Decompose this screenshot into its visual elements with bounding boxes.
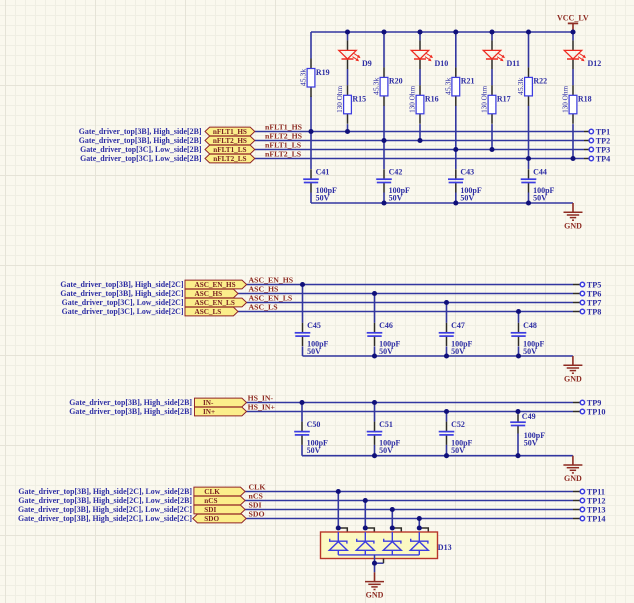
port nFLT1_LS bbox=[205, 145, 255, 154]
capacitor C51 100pF 50V bbox=[367, 420, 401, 455]
resistor R15 value 130 Ohm bbox=[336, 85, 366, 124]
svg-text:50V: 50V bbox=[451, 446, 465, 455]
wire D13 common anode rail bbox=[338, 554, 419, 556]
wire D13 pin 2 bbox=[365, 501, 374, 533]
wire capacitor column section2 bbox=[446, 303, 448, 357]
svg-text:Gate_driver_top[3B], High_side: Gate_driver_top[3B], High_side[2C] bbox=[60, 289, 184, 298]
svg-text:IN-: IN- bbox=[203, 399, 214, 407]
port ASC_HS bbox=[185, 289, 238, 298]
svg-text:SDO: SDO bbox=[249, 510, 265, 519]
svg-text:TP7: TP7 bbox=[587, 298, 602, 307]
svg-text:C48: C48 bbox=[523, 321, 537, 330]
svg-text:TP8: TP8 bbox=[587, 307, 602, 316]
svg-text:R15: R15 bbox=[352, 95, 366, 104]
net label HS_IN+ bbox=[248, 403, 276, 412]
resistor R19 value 45.3k bbox=[299, 59, 330, 98]
capacitor C47 100pF 50V bbox=[439, 321, 473, 356]
label Gate_driver_top[3B], High_side[2C] bbox=[60, 289, 184, 298]
wire D10 column bbox=[419, 32, 421, 141]
svg-text:Gate_driver_top[3B], High_side: Gate_driver_top[3B], High_side[2C], Low_… bbox=[18, 514, 192, 523]
test point TP10 bbox=[573, 407, 605, 416]
wire net ASC_EN_HS bbox=[247, 284, 573, 286]
net label HS_IN- bbox=[248, 394, 274, 403]
svg-text:Gate_driver_top[3B], High_side: Gate_driver_top[3B], High_side[2B] bbox=[79, 136, 202, 145]
svg-text:C44: C44 bbox=[533, 167, 547, 176]
svg-text:GND: GND bbox=[366, 591, 384, 600]
wire D13 ground tap bbox=[375, 555, 384, 572]
wire net SDO bbox=[246, 518, 573, 520]
svg-text:ASC_HS: ASC_HS bbox=[249, 285, 279, 294]
port nCS bbox=[194, 496, 245, 505]
svg-text:TP12: TP12 bbox=[587, 496, 606, 505]
svg-text:HS_IN-: HS_IN- bbox=[248, 394, 274, 403]
svg-text:nFLT2_LS: nFLT2_LS bbox=[265, 150, 301, 159]
wire ground rail section2 bbox=[303, 355, 573, 357]
svg-text:GND: GND bbox=[564, 474, 582, 483]
wire net nCS bbox=[245, 500, 573, 502]
LED D9 bbox=[339, 40, 372, 69]
port SDI bbox=[194, 505, 245, 514]
svg-text:ASC_LS: ASC_LS bbox=[249, 303, 278, 312]
svg-text:C47: C47 bbox=[451, 321, 465, 330]
svg-text:Gate_driver_top[3B], High_side: Gate_driver_top[3B], High_side[2C] bbox=[60, 280, 184, 289]
svg-text:nFLT1_LS: nFLT1_LS bbox=[213, 146, 246, 154]
svg-text:TP5: TP5 bbox=[587, 280, 602, 289]
net label CLK bbox=[249, 483, 266, 492]
svg-text:ASC_EN_LS: ASC_EN_LS bbox=[195, 299, 235, 307]
junction dots section2 bbox=[300, 282, 521, 359]
svg-text:nFLT2_LS: nFLT2_LS bbox=[213, 155, 246, 163]
test point TP6 bbox=[573, 289, 601, 298]
wire ground rail section3 bbox=[302, 455, 573, 457]
resistor R17 value 130 Ohm bbox=[481, 85, 511, 124]
svg-text:Gate_driver_top[3B], High_side: Gate_driver_top[3B], High_side[2C], Low_… bbox=[18, 496, 192, 505]
zener diode D13 element 2 bbox=[356, 532, 374, 555]
test point TP11 bbox=[573, 487, 605, 496]
svg-text:TP9: TP9 bbox=[587, 398, 602, 407]
svg-text:50V: 50V bbox=[316, 193, 330, 202]
net label ASC_EN_LS bbox=[249, 294, 293, 303]
svg-text:45.3k: 45.3k bbox=[444, 78, 453, 95]
svg-text:Gate_driver_top[3B], High_side: Gate_driver_top[3B], High_side[2C], Low_… bbox=[18, 487, 192, 496]
junction dots ground rail section1 bbox=[381, 200, 531, 205]
port nFLT1_HS bbox=[205, 127, 255, 136]
svg-text:ASC_EN_HS: ASC_EN_HS bbox=[195, 281, 236, 289]
test point TP7 bbox=[573, 298, 601, 307]
label Gate_driver_top[3B], High_side[2C], Low_side[2B] bbox=[18, 496, 192, 505]
junction dots bus section1 bbox=[308, 129, 575, 161]
svg-text:50V: 50V bbox=[379, 347, 393, 356]
wire D11 column bbox=[491, 32, 493, 150]
wire net HS_IN+ bbox=[247, 411, 574, 413]
label Gate_driver_top[3B], High_side[2B] bbox=[69, 398, 192, 407]
svg-text:C43: C43 bbox=[460, 167, 474, 176]
svg-text:C46: C46 bbox=[379, 321, 393, 330]
svg-text:50V: 50V bbox=[524, 438, 538, 447]
svg-text:nFLT2_HS: nFLT2_HS bbox=[213, 137, 247, 145]
svg-text:R17: R17 bbox=[497, 95, 511, 104]
test point TP13 bbox=[573, 505, 605, 514]
wire capacitor column section3 bbox=[446, 412, 448, 456]
port IN+ bbox=[195, 407, 247, 416]
svg-text:C49: C49 bbox=[522, 412, 536, 421]
net label nFLT1_HS bbox=[265, 123, 302, 132]
svg-text:TP14: TP14 bbox=[587, 514, 606, 523]
svg-text:Gate_driver_top[3C], Low_side[: Gate_driver_top[3C], Low_side[2B] bbox=[80, 154, 202, 163]
svg-text:ASC_LS: ASC_LS bbox=[195, 308, 222, 316]
test point TP1 bbox=[584, 127, 610, 136]
svg-text:CLK: CLK bbox=[204, 488, 220, 496]
label Gate_driver_top[3B], High_side[2C], Low_side[2C] bbox=[18, 505, 192, 514]
capacitor C44 100pF 50V bbox=[521, 167, 555, 202]
port IN- bbox=[195, 398, 247, 407]
label Gate_driver_top[3C], Low_side[2B] bbox=[80, 145, 202, 154]
svg-text:C41: C41 bbox=[316, 167, 330, 176]
svg-text:TP13: TP13 bbox=[587, 505, 606, 514]
wire D12 column bbox=[572, 32, 574, 159]
svg-text:Gate_driver_top[3B], High_side: Gate_driver_top[3B], High_side[2C], Low_… bbox=[18, 505, 192, 514]
port nFLT2_HS bbox=[205, 136, 255, 145]
net label nFLT1_LS bbox=[265, 141, 301, 150]
svg-text:TP1: TP1 bbox=[596, 127, 611, 136]
ground GND D13 bbox=[365, 572, 384, 599]
svg-text:Gate_driver_top[3C], Low_side[: Gate_driver_top[3C], Low_side[2C] bbox=[62, 307, 184, 316]
net label nCS bbox=[249, 492, 263, 501]
zener diode D13 element 3 bbox=[383, 532, 401, 555]
wire R20 column bbox=[383, 32, 385, 203]
label Gate_driver_top[3B], High_side[2C], Low_side[2B] bbox=[18, 487, 192, 496]
test point TP3 bbox=[584, 145, 610, 154]
svg-text:45.3k: 45.3k bbox=[299, 69, 308, 86]
wire capacitor column section2 bbox=[302, 285, 304, 357]
label Gate_driver_top[3C], Low_side[2C] bbox=[62, 307, 184, 316]
svg-text:TP6: TP6 bbox=[587, 289, 602, 298]
svg-text:TP10: TP10 bbox=[587, 407, 606, 416]
svg-text:ASC_HS: ASC_HS bbox=[195, 290, 223, 298]
svg-text:HS_IN+: HS_IN+ bbox=[248, 403, 276, 412]
resistor R22 value 45.3k bbox=[516, 67, 547, 106]
svg-text:50V: 50V bbox=[523, 347, 537, 356]
test point TP14 bbox=[573, 514, 605, 523]
svg-text:TP11: TP11 bbox=[587, 487, 605, 496]
wire capacitor column section2 bbox=[518, 312, 520, 357]
wire D9 column bbox=[347, 32, 349, 132]
junction dots section4 bbox=[336, 489, 422, 566]
LED D12 bbox=[564, 40, 601, 69]
capacitor C42 100pF 50V bbox=[376, 167, 410, 202]
svg-text:50V: 50V bbox=[460, 193, 474, 202]
test point TP12 bbox=[573, 496, 605, 505]
net label SDO bbox=[249, 510, 265, 519]
port ASC_EN_LS bbox=[185, 298, 247, 307]
wire net nFLT2_LS bbox=[255, 158, 584, 160]
wire net ASC_LS bbox=[238, 311, 573, 313]
test point TP4 bbox=[584, 154, 610, 163]
svg-text:nFLT1_LS: nFLT1_LS bbox=[265, 141, 301, 150]
svg-text:D10: D10 bbox=[435, 59, 449, 68]
svg-text:130 Ohm: 130 Ohm bbox=[562, 86, 570, 113]
svg-text:C50: C50 bbox=[307, 420, 321, 429]
ground GND section3 bbox=[563, 456, 582, 483]
capacitor C45 100pF 50V bbox=[295, 321, 329, 356]
svg-text:nCS: nCS bbox=[249, 492, 263, 501]
svg-text:VCC_LV: VCC_LV bbox=[557, 13, 589, 22]
resistor R21 value 45.3k bbox=[444, 67, 475, 106]
port CLK bbox=[194, 487, 245, 496]
svg-text:ASC_EN_LS: ASC_EN_LS bbox=[249, 294, 293, 303]
svg-text:SDO: SDO bbox=[204, 515, 219, 523]
svg-text:Gate_driver_top[3C], Low_side[: Gate_driver_top[3C], Low_side[2C] bbox=[62, 298, 184, 307]
svg-text:nCS: nCS bbox=[204, 497, 217, 505]
test point TP2 bbox=[584, 136, 610, 145]
capacitor C50 100pF 50V bbox=[294, 420, 328, 455]
svg-text:C51: C51 bbox=[379, 420, 393, 429]
svg-text:D12: D12 bbox=[588, 59, 602, 68]
label Gate_driver_top[3B], High_side[2B] bbox=[69, 407, 192, 416]
label Gate_driver_top[3C], Low_side[2B] bbox=[80, 154, 202, 163]
svg-text:C45: C45 bbox=[307, 321, 321, 330]
svg-text:nFLT2_HS: nFLT2_HS bbox=[265, 132, 302, 141]
LED D11 bbox=[483, 40, 520, 69]
label Gate_driver_top[3B], High_side[2B] bbox=[79, 136, 202, 145]
wire R19 column bbox=[310, 32, 312, 203]
svg-text:Gate_driver_top[3B], High_side: Gate_driver_top[3B], High_side[2B] bbox=[69, 398, 192, 407]
net label nFLT2_LS bbox=[265, 150, 301, 159]
LED D10 bbox=[411, 40, 448, 69]
wire net SDI bbox=[245, 509, 573, 511]
svg-text:130 Ohm: 130 Ohm bbox=[409, 86, 417, 113]
wire net nFLT1_LS bbox=[255, 149, 584, 151]
svg-text:CLK: CLK bbox=[249, 483, 266, 492]
svg-text:SDI: SDI bbox=[204, 506, 216, 514]
capacitor C43 100pF 50V bbox=[448, 167, 482, 202]
svg-text:130 Ohm: 130 Ohm bbox=[336, 86, 344, 113]
svg-text:R20: R20 bbox=[389, 77, 403, 86]
net label ASC_EN_HS bbox=[249, 276, 294, 285]
wire R22 column bbox=[528, 32, 530, 203]
port ASC_EN_HS bbox=[185, 280, 247, 289]
svg-text:D11: D11 bbox=[507, 59, 520, 68]
svg-text:130 Ohm: 130 Ohm bbox=[481, 86, 489, 113]
test point TP8 bbox=[573, 307, 601, 316]
svg-text:50V: 50V bbox=[379, 446, 393, 455]
wire top power rail bbox=[311, 31, 573, 33]
net label ASC_LS bbox=[249, 303, 278, 312]
wire net ASC_EN_LS bbox=[247, 302, 573, 304]
svg-text:C52: C52 bbox=[451, 420, 465, 429]
label Gate_driver_top[3B], High_side[2B] bbox=[79, 127, 202, 136]
svg-text:50V: 50V bbox=[533, 193, 547, 202]
wire net HS_IN- bbox=[247, 402, 574, 404]
resistor R16 value 130 Ohm bbox=[409, 85, 439, 124]
svg-text:R19: R19 bbox=[316, 68, 330, 77]
svg-text:SDI: SDI bbox=[249, 501, 262, 510]
svg-text:50V: 50V bbox=[451, 347, 465, 356]
port SDO bbox=[193, 514, 246, 523]
test point TP5 bbox=[573, 280, 601, 289]
wire net CLK bbox=[245, 491, 573, 493]
junction dots top rail bbox=[345, 29, 576, 34]
svg-text:Gate_driver_top[3B], High_side: Gate_driver_top[3B], High_side[2B] bbox=[69, 407, 192, 416]
svg-text:50V: 50V bbox=[307, 446, 321, 455]
power symbol VCC_LV bbox=[557, 13, 589, 32]
svg-text:R22: R22 bbox=[533, 77, 547, 86]
ground GND section2 bbox=[563, 356, 582, 383]
port ASC_LS bbox=[185, 307, 238, 316]
svg-text:D9: D9 bbox=[362, 59, 372, 68]
capacitor C52 100pF 50V bbox=[439, 420, 473, 455]
ground GND section1 bbox=[564, 203, 583, 230]
port nFLT2_LS bbox=[205, 154, 255, 163]
wire D13 pin 3 bbox=[392, 510, 401, 533]
wire net ASC_HS bbox=[238, 293, 573, 295]
net label nFLT2_HS bbox=[265, 132, 302, 141]
capacitor C41 100pF 50V bbox=[303, 167, 337, 202]
test point TP9 bbox=[573, 398, 601, 407]
svg-text:nFLT1_HS: nFLT1_HS bbox=[213, 128, 247, 136]
svg-text:R16: R16 bbox=[425, 95, 439, 104]
wire net nFLT1_HS bbox=[255, 131, 584, 133]
net label ASC_HS bbox=[249, 285, 279, 294]
svg-text:50V: 50V bbox=[389, 193, 403, 202]
wire capacitor column section3 bbox=[374, 403, 376, 456]
label Gate_driver_top[3B], High_side[2C] bbox=[60, 280, 184, 289]
svg-text:GND: GND bbox=[564, 221, 582, 230]
net label SDI bbox=[249, 501, 262, 510]
wire net nFLT2_HS bbox=[255, 140, 584, 142]
capacitor C46 100pF 50V bbox=[367, 321, 401, 356]
svg-text:45.3k: 45.3k bbox=[516, 78, 525, 95]
svg-text:R18: R18 bbox=[578, 95, 592, 104]
junction dots section3 bbox=[299, 400, 520, 458]
svg-text:R21: R21 bbox=[461, 77, 475, 86]
label Gate_driver_top[3B], High_side[2C], Low_side[2C] bbox=[18, 514, 192, 523]
wire capacitor C49 column bbox=[517, 412, 519, 456]
zener diode D13 element 1 bbox=[329, 532, 347, 555]
svg-text:D13: D13 bbox=[438, 543, 452, 552]
resistor R20 value 45.3k bbox=[372, 67, 403, 106]
svg-text:TP2: TP2 bbox=[596, 136, 611, 145]
zener diode D13 element 4 bbox=[410, 532, 428, 555]
svg-text:50V: 50V bbox=[307, 347, 321, 356]
wire capacitor column section3 bbox=[301, 403, 303, 456]
wire D13 pin 1 bbox=[338, 492, 347, 533]
capacitor C48 100pF 50V bbox=[511, 321, 545, 356]
svg-text:Gate_driver_top[3B], High_side: Gate_driver_top[3B], High_side[2B] bbox=[79, 127, 202, 136]
label Gate_driver_top[3C], Low_side[2C] bbox=[62, 298, 184, 307]
svg-text:C42: C42 bbox=[389, 167, 403, 176]
wire D13 pin 4 bbox=[419, 519, 428, 533]
svg-text:45.3k: 45.3k bbox=[372, 78, 381, 95]
wire capacitor column section2 bbox=[374, 294, 376, 357]
capacitor C49 100pF 50V bbox=[510, 412, 545, 447]
svg-text:TP4: TP4 bbox=[596, 154, 611, 163]
wire capacitor C41 stub bbox=[0, 0, 1, 1]
svg-text:Gate_driver_top[3C], Low_side[: Gate_driver_top[3C], Low_side[2B] bbox=[80, 145, 202, 154]
resistor R18 value 130 Ohm bbox=[562, 85, 592, 124]
svg-text:ASC_EN_HS: ASC_EN_HS bbox=[249, 276, 294, 285]
wire R21 column bbox=[455, 32, 457, 203]
svg-text:IN+: IN+ bbox=[203, 408, 215, 416]
svg-text:GND: GND bbox=[564, 374, 582, 383]
svg-text:TP3: TP3 bbox=[596, 145, 611, 154]
wire ground rail section1 bbox=[311, 202, 573, 204]
svg-text:nFLT1_HS: nFLT1_HS bbox=[265, 123, 302, 132]
diode array D13 box bbox=[321, 532, 452, 559]
